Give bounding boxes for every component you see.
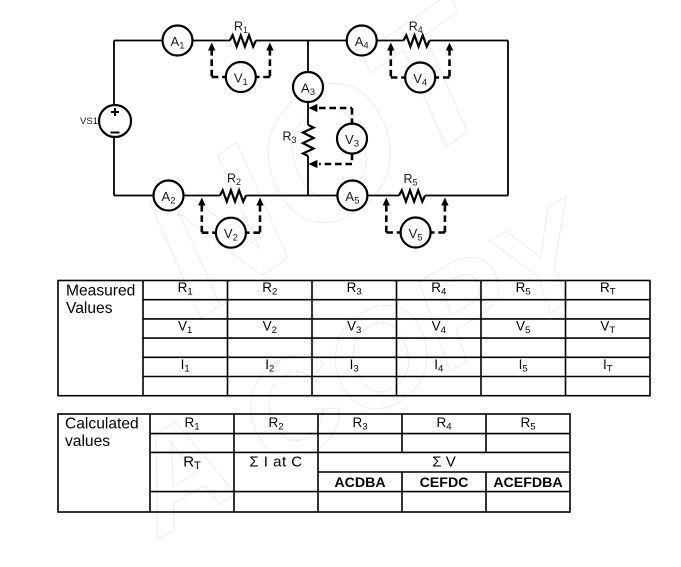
wire left vertical [113, 41, 115, 196]
svg-text:VS1: VS1 [80, 116, 98, 127]
voltage source VS1 [80, 105, 131, 137]
svg-text:R2: R2 [227, 172, 241, 188]
svg-text:CEFDC: CEFDC [420, 475, 469, 491]
ammeter A3 [293, 72, 323, 102]
measured values table text [66, 280, 616, 374]
voltmeter V3 with leads [308, 104, 367, 168]
calculated values table grid [58, 414, 570, 512]
calculated values table text [65, 415, 563, 491]
measured values table grid [58, 281, 650, 396]
svg-text:R3: R3 [282, 130, 296, 146]
svg-text:V4: V4 [432, 319, 447, 337]
svg-text:R4: R4 [436, 415, 452, 433]
svg-text:V1: V1 [178, 319, 192, 337]
svg-text:R2: R2 [262, 280, 277, 298]
svg-text:I2: I2 [265, 357, 274, 375]
svg-text:I5: I5 [519, 357, 528, 375]
voltmeter V5 with leads [383, 198, 449, 248]
resistor R2 [220, 172, 246, 202]
watermark line 1 [104, 0, 534, 355]
voltmeter V4 with leads [387, 43, 453, 93]
svg-text:V3: V3 [347, 319, 361, 337]
watermark line 2 [98, 175, 619, 566]
svg-text:RT: RT [183, 453, 201, 472]
svg-text:Calculated: Calculated [65, 415, 139, 432]
svg-text:IT: IT [603, 357, 613, 375]
svg-text:RT: RT [600, 280, 616, 298]
svg-text:R5: R5 [403, 172, 417, 188]
svg-text:values: values [65, 433, 110, 450]
svg-text:R4: R4 [409, 20, 423, 36]
resistor R5 [399, 172, 425, 202]
svg-text:R5: R5 [516, 280, 531, 298]
svg-text:R1: R1 [184, 415, 199, 433]
svg-text:R1: R1 [234, 20, 248, 36]
resistor R1 [230, 20, 256, 47]
svg-text:Σ V: Σ V [432, 454, 455, 471]
resistor R4 [404, 20, 430, 47]
svg-text:ACDBA: ACDBA [334, 475, 385, 491]
svg-text:Values: Values [66, 300, 113, 317]
svg-text:R4: R4 [431, 280, 447, 298]
svg-text:VT: VT [600, 319, 615, 337]
svg-text:R5: R5 [520, 415, 535, 433]
svg-text:R2: R2 [268, 415, 283, 433]
svg-text:I1: I1 [181, 357, 190, 375]
voltmeter V2 with leads [198, 198, 264, 248]
ammeter A5 [337, 181, 367, 211]
svg-text:R3: R3 [352, 415, 367, 433]
wire right vertical [507, 41, 509, 196]
ammeter A1 [163, 26, 193, 56]
svg-text:Σ I at C: Σ I at C [249, 453, 302, 470]
wire top horizontal [114, 40, 508, 42]
svg-text:R3: R3 [347, 280, 362, 298]
ammeter A2 [154, 181, 184, 211]
svg-text:V5: V5 [516, 319, 530, 337]
voltmeter V1 with leads [208, 43, 274, 93]
svg-text:Measured: Measured [66, 283, 135, 300]
wire bottom horizontal [114, 195, 508, 197]
wire middle branch vertical [307, 41, 309, 196]
resistor R3 (vertical) [282, 125, 313, 156]
svg-text:I4: I4 [434, 357, 444, 375]
ammeter A4 [347, 26, 377, 56]
svg-text:I3: I3 [350, 357, 359, 375]
svg-text:ACEFDBA: ACEFDBA [493, 475, 562, 491]
svg-text:V2: V2 [263, 319, 277, 337]
svg-text:R1: R1 [178, 280, 193, 298]
